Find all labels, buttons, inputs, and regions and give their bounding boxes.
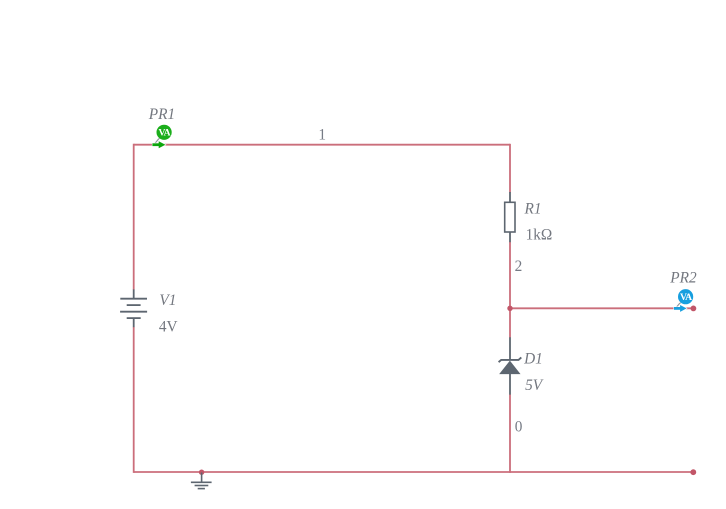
wire PR2 branch horizontal xyxy=(510,307,693,309)
terminal dot bottom right xyxy=(690,469,696,475)
svg-text:R1: R1 xyxy=(524,201,542,218)
wire bottom horizontal net 0 xyxy=(134,471,694,473)
probe PR2 (blue voltage/current probe) xyxy=(674,289,693,312)
wire left vertical lower xyxy=(133,327,135,473)
svg-text:VA: VA xyxy=(158,128,170,139)
voltage source V1 (battery) xyxy=(120,289,147,327)
probe PR1 (green voltage/current probe) xyxy=(152,125,171,148)
ground xyxy=(191,473,212,489)
svg-text:PR2: PR2 xyxy=(669,269,697,286)
svg-text:1kΩ: 1kΩ xyxy=(526,227,553,244)
wire right vertical middle (R1 to D1, net 2) xyxy=(509,242,511,338)
terminal dot PR2 branch xyxy=(691,306,697,312)
svg-text:VA: VA xyxy=(680,292,692,303)
svg-text:PR1: PR1 xyxy=(148,106,175,123)
wire right vertical upper (net 1 to R1) xyxy=(509,144,511,193)
svg-text:V1: V1 xyxy=(159,292,176,309)
junction dot ground xyxy=(199,470,204,475)
wire left vertical upper xyxy=(133,144,135,290)
wire top horizontal net 1 xyxy=(134,144,510,146)
resistor R1 xyxy=(505,192,515,242)
svg-text:5V: 5V xyxy=(525,377,544,394)
svg-text:D1: D1 xyxy=(523,350,543,367)
svg-text:1: 1 xyxy=(318,126,326,143)
zener diode D1 xyxy=(499,337,522,394)
svg-text:0: 0 xyxy=(515,419,523,436)
junction node 2 dot xyxy=(507,306,512,311)
svg-text:4V: 4V xyxy=(159,319,178,336)
svg-text:2: 2 xyxy=(515,258,523,275)
wire right vertical lower (D1 to net 0) xyxy=(509,394,511,473)
